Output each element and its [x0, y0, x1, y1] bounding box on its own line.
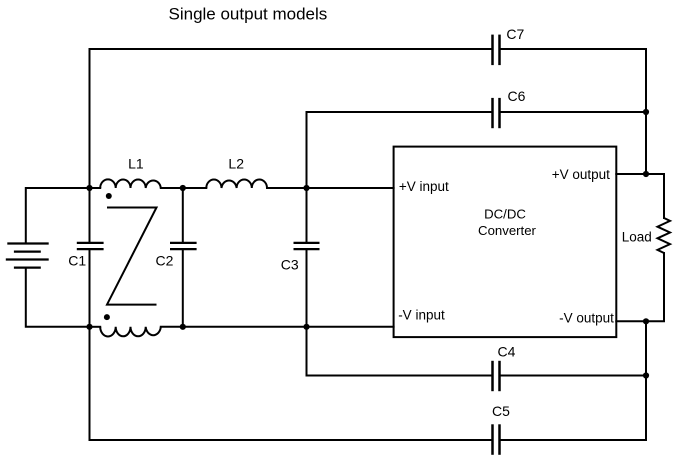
wire -V output to load	[616, 253, 664, 321]
capacitor C2	[170, 243, 197, 249]
node junction x182 y188	[180, 185, 186, 191]
node junction x89 y188	[86, 185, 92, 191]
wire +V output to load	[616, 174, 664, 218]
wire C5 rail right segment	[500, 439, 647, 441]
svg-text:C1: C1	[68, 253, 86, 269]
DC/DC converter box U1	[394, 147, 617, 338]
wire top rail right segment	[500, 49, 647, 174]
wire +V rail L1 to L2	[161, 187, 207, 189]
inductor L1 (choke top winding)	[100, 179, 161, 188]
node junction x306 y188	[303, 185, 309, 191]
capacitor C7	[493, 35, 500, 66]
wire main left vertical lower	[89, 250, 91, 440]
wire C4 rail left segment	[307, 375, 493, 377]
battery B1	[6, 244, 49, 268]
capacitor C5	[493, 424, 500, 455]
svg-text:+V output: +V output	[552, 167, 610, 182]
capacitor C4	[493, 361, 500, 391]
wire top rail left segment (C7 loop)	[90, 49, 493, 188]
wire C5 rail left segment	[90, 439, 493, 441]
node junction x306 y326	[303, 324, 309, 330]
node junction C4 right	[643, 372, 649, 378]
wire stub junction to L1	[90, 187, 101, 189]
wire C4 rail right segment	[500, 375, 647, 377]
svg-text:-V output: -V output	[559, 310, 614, 325]
wire battery bottom lead	[26, 268, 90, 327]
svg-text:Single output models: Single output models	[169, 4, 328, 23]
node junction +V output	[643, 171, 649, 177]
wire C2 branch lower	[182, 250, 184, 327]
node junction x89 y326	[86, 324, 92, 330]
capacitor C1	[77, 243, 104, 249]
wire C6 rail right segment	[500, 111, 646, 113]
wire stub junction to choke bottom winding	[90, 326, 101, 328]
capacitor C6	[493, 98, 500, 128]
wire right inner vertical lower	[645, 321, 647, 440]
svg-text:C5: C5	[492, 403, 510, 419]
svg-text:C4: C4	[498, 344, 516, 360]
wire C3 branch upper	[306, 188, 308, 242]
svg-text:L1: L1	[128, 156, 144, 172]
svg-text:C6: C6	[508, 88, 526, 104]
choke phase dot bottom	[104, 314, 110, 320]
choke bottom winding	[100, 327, 161, 337]
choke core Z symbol	[107, 208, 157, 305]
resistor R1 Load	[658, 218, 671, 253]
svg-text:C2: C2	[156, 253, 174, 269]
svg-text:-V input: -V input	[398, 307, 445, 322]
wire C6 rail left segment	[307, 112, 493, 188]
svg-text:L2: L2	[228, 156, 244, 172]
wire +V rail L2 to box	[267, 187, 394, 189]
node junction x182 y326	[180, 324, 186, 330]
wire battery top lead	[26, 188, 90, 244]
svg-text:DC/DC: DC/DC	[484, 207, 526, 222]
node junction C6 right	[643, 109, 649, 115]
capacitor C3	[294, 243, 320, 249]
wire bottom rail choke to box	[161, 326, 394, 328]
svg-text:C7: C7	[506, 26, 524, 42]
wire C3 branch lower	[306, 250, 308, 375]
wire main left vertical upper	[89, 188, 91, 242]
choke phase dot top	[106, 193, 112, 199]
svg-text:C3: C3	[281, 257, 299, 273]
svg-text:Load: Load	[622, 229, 652, 244]
svg-text:+V input: +V input	[399, 179, 449, 194]
inductor L2	[206, 180, 267, 189]
svg-text:Converter: Converter	[478, 223, 537, 238]
wire C2 branch upper	[182, 188, 184, 242]
node junction -V output	[643, 318, 649, 324]
